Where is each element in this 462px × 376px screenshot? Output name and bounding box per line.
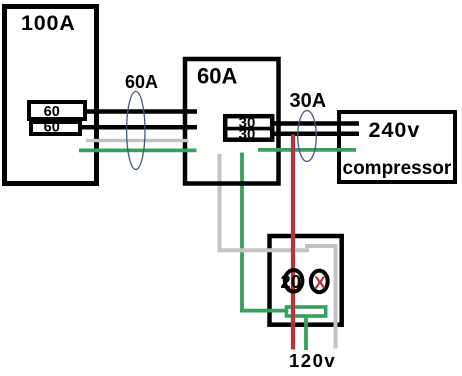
compressor box [339,112,455,182]
wire ground green feeder main to subpanel [79,148,197,152]
wire ground green vertical below outlet [304,316,308,350]
ground terminal green rectangle in outlet [287,307,326,316]
wire hot black feeder A main to subpanel [84,109,197,114]
breaker 30 box divider [223,127,275,131]
svg-text:compressor: compressor [343,158,452,179]
wire neutral gray horizontal to outlet [218,248,310,252]
wire hot black A subpanel to compressor [271,121,359,126]
svg-text:60A: 60A [197,64,237,89]
wire neutral gray vertical down right of outlet [334,244,338,349]
wire ground green vertical from 60A subpanel down [240,153,244,313]
conduit ellipse 30A [298,111,317,162]
breaker 60 box top [29,102,85,119]
wire hot red vertical to outlet [291,135,295,350]
wire ground green horizontal to outlet [240,309,288,313]
wire hot black feeder B main to subpanel [79,125,197,130]
svg-text:60: 60 [44,120,60,136]
svg-text:240v: 240v [369,118,421,142]
svg-text:60A: 60A [125,72,158,92]
wire neutral gray horizontal upper jog in outlet [305,244,338,248]
svg-text:20: 20 [280,271,301,292]
wire neutral gray feeder main to subpanel [86,139,189,143]
outlet box [270,236,342,325]
svg-text:30: 30 [239,126,256,143]
wire neutral gray vertical from 60A subpanel down [218,154,222,252]
svg-text:30A: 30A [290,90,327,112]
svg-text:60: 60 [44,104,60,120]
breaker 60 box bottom [31,122,80,134]
main panel 100A box [5,7,97,184]
svg-text:100A: 100A [21,11,76,35]
conduit ellipse 60A [127,92,145,170]
breaker 30 box outer [225,116,272,140]
outlet receptacle circle 20 [285,270,303,292]
subpanel 60A box [185,59,279,184]
svg-text:120v: 120v [289,350,336,371]
wire hot black B subpanel to compressor [271,132,359,137]
outlet receptacle circle X [311,271,328,293]
svg-text:X: X [314,273,326,293]
wire ground green subpanel to compressor [258,148,356,152]
